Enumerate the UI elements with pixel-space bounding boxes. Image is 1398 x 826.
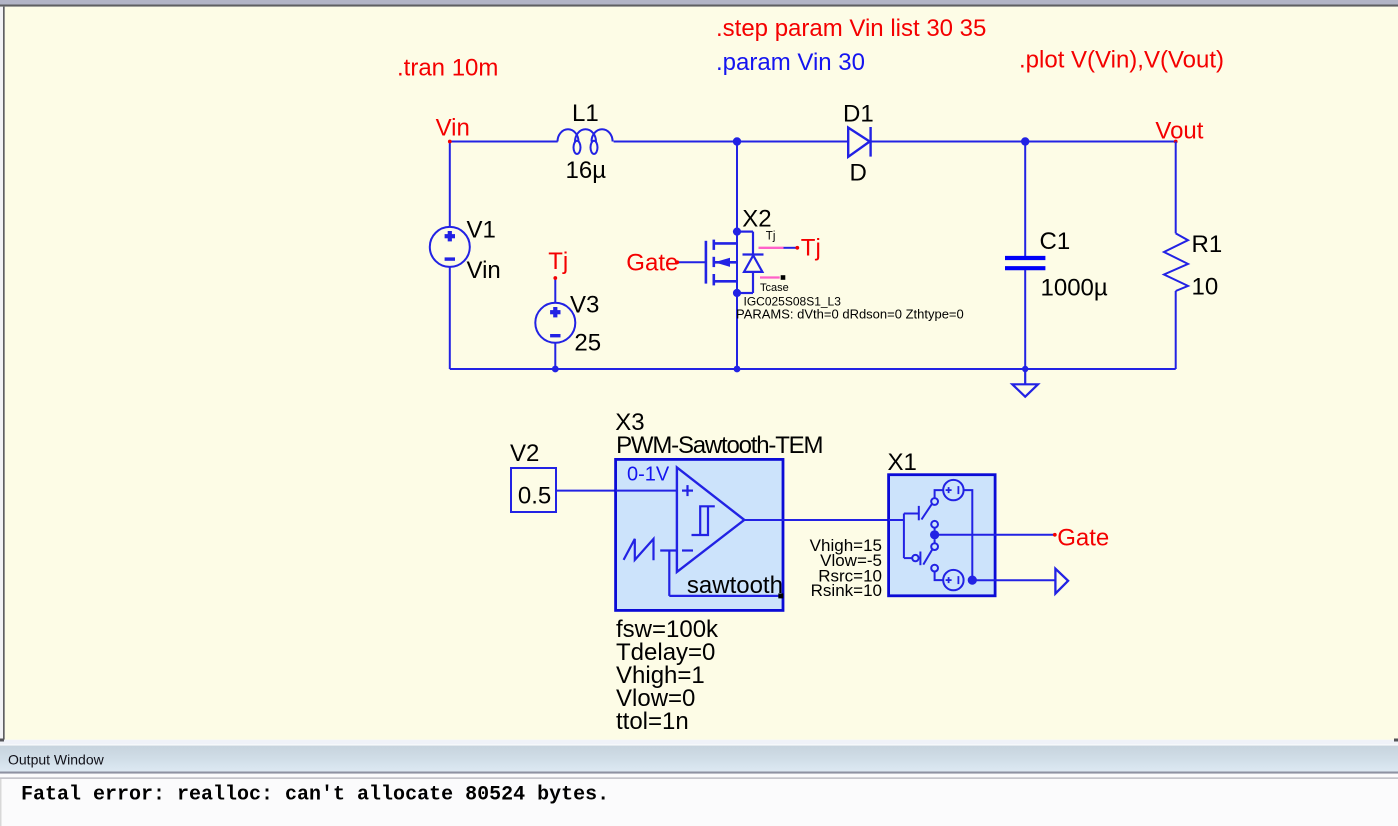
junction X1 output mid — [930, 530, 939, 539]
junction V3-bottom rail — [552, 366, 559, 373]
label sawtooth — [687, 572, 783, 599]
capacitor C1 — [1005, 142, 1045, 370]
pin dot X2 source — [733, 289, 741, 297]
svg-text:10: 10 — [1192, 273, 1219, 300]
svg-text:D1: D1 — [843, 101, 874, 128]
label D1 — [843, 101, 874, 128]
output message text — [21, 783, 609, 806]
gate driver internals X1 — [889, 480, 973, 590]
pin square sawtooth — [778, 593, 783, 598]
value Rsrc=10 — [818, 566, 882, 585]
minus input wire with tick — [660, 549, 677, 551]
label V3 — [570, 292, 599, 319]
op-amp comparator in X3 — [677, 467, 744, 572]
value IGC025S08S1_L3 — [744, 294, 842, 308]
voltage source V1 — [430, 227, 470, 267]
value ttol=1n — [616, 708, 689, 735]
svg-text:Vin: Vin — [436, 115, 470, 142]
wire X1 to Gate — [939, 534, 1055, 536]
value 25 — [574, 330, 601, 357]
value D — [850, 160, 867, 187]
svg-text:X1: X1 — [888, 449, 917, 476]
wire bottom rail — [450, 368, 1176, 370]
label 0-1V — [627, 464, 670, 486]
svg-text:sawtooth: sawtooth — [687, 572, 783, 599]
diode D1 — [848, 127, 870, 157]
junction top rail / X2 — [733, 137, 741, 145]
junction bottom rail / X2 — [734, 366, 741, 373]
svg-text:R1: R1 — [1192, 231, 1223, 258]
value Tdelay=0 — [616, 639, 715, 666]
value 0.5 — [518, 482, 551, 509]
voltage source V2 (box) — [511, 468, 556, 512]
wire X2 drain-source vertical — [736, 142, 738, 370]
wire V2 to X3 — [556, 490, 677, 492]
output arrow symbol — [1055, 569, 1068, 594]
block X1 body — [889, 475, 996, 596]
voltage source V3 — [535, 278, 575, 369]
svg-text:Gate: Gate — [1057, 525, 1109, 552]
node Gate label at X2 — [626, 249, 679, 276]
wire V2 input inside X3 — [616, 490, 677, 492]
directive .step — [716, 15, 986, 42]
wire X1 bottom output — [976, 579, 1055, 581]
svg-text:.plot V(Vin),V(Vout): .plot V(Vin),V(Vout) — [1019, 47, 1224, 74]
junction top rail / C1 — [1021, 137, 1029, 145]
window chrome top strip — [0, 0, 1398, 7]
pin Tj line (thermal) — [759, 247, 798, 249]
svg-text:0-1V: 0-1V — [627, 464, 670, 486]
value Vlow=-5 — [820, 551, 882, 570]
node Tj label at X2 — [795, 234, 820, 261]
value Vin — [467, 257, 501, 284]
svg-text:.tran 10m: .tran 10m — [397, 54, 498, 81]
label X1 — [888, 449, 917, 476]
svg-text:Tcase: Tcase — [760, 282, 789, 294]
label V2 — [510, 440, 539, 467]
label X3 — [615, 409, 644, 436]
label L1 — [572, 100, 599, 127]
svg-text:V2: V2 — [510, 440, 539, 467]
transistor X2 (IGBT symbol) — [706, 232, 764, 293]
wire X3 output to X1 — [744, 519, 888, 521]
value PARAMS line — [736, 307, 964, 322]
directive .plot — [1019, 47, 1224, 74]
output window title — [8, 752, 105, 768]
wire gate stub — [677, 261, 706, 263]
output window separator gap — [0, 739, 1398, 746]
svg-text:Output Window: Output Window — [8, 752, 105, 768]
output message area — [0, 774, 1398, 826]
value PWM-Sawtooth-TEM — [616, 432, 822, 459]
svg-text:16µ: 16µ — [566, 157, 607, 184]
junction bottom rail / ground — [1022, 366, 1028, 372]
svg-text:D: D — [850, 160, 867, 187]
pin label Tcase — [760, 282, 789, 294]
svg-text:Fatal error: realloc: can't al: Fatal error: realloc: can't allocate 805… — [21, 783, 609, 806]
label X2 — [742, 206, 771, 233]
node Tj label at V3 — [548, 248, 568, 280]
svg-text:Vout: Vout — [1155, 118, 1203, 145]
svg-text:C1: C1 — [1040, 228, 1071, 255]
block X3 body — [616, 459, 783, 610]
svg-text:Rsink=10: Rsink=10 — [811, 581, 882, 600]
label V1 — [467, 216, 496, 243]
value 10 — [1192, 273, 1219, 300]
directive .param — [716, 49, 865, 76]
junction X1 output bottom — [968, 576, 977, 585]
sawtooth icon in X3 — [624, 539, 654, 560]
svg-text:L1: L1 — [572, 100, 599, 127]
label R1 — [1192, 231, 1223, 258]
pin Tcase line (thermal) — [760, 275, 785, 280]
svg-text:0.5: 0.5 — [518, 482, 551, 509]
pin dot X2 drain — [733, 228, 741, 236]
svg-text:Vin: Vin — [467, 257, 501, 284]
svg-text:PWM-Sawtooth-TEM: PWM-Sawtooth-TEM — [616, 432, 822, 459]
window chrome left strip — [0, 7, 5, 740]
svg-text:Tj: Tj — [766, 231, 776, 243]
svg-text:1000µ: 1000µ — [1041, 275, 1108, 302]
svg-text:X2: X2 — [742, 206, 771, 233]
resistor R1 — [1164, 142, 1188, 370]
feedback sawtooth wire — [669, 551, 781, 596]
value Vhigh=15 — [810, 536, 882, 555]
value 1000u — [1041, 275, 1108, 302]
svg-text:Tj: Tj — [548, 248, 568, 275]
svg-text:ttol=1n: ttol=1n — [616, 708, 689, 735]
directive .tran — [397, 54, 498, 81]
value fsw=100k — [616, 616, 719, 643]
svg-text:Gate: Gate — [626, 249, 678, 276]
label C1 — [1040, 228, 1071, 255]
svg-text:V3: V3 — [570, 292, 599, 319]
inductor L1 — [558, 129, 613, 154]
ground — [1012, 369, 1038, 397]
svg-text:Tj: Tj — [801, 234, 821, 261]
node Gate label right — [1053, 525, 1109, 552]
svg-text:V1: V1 — [467, 216, 496, 243]
svg-text:.step param Vin list 30 35: .step param Vin list 30 35 — [716, 15, 986, 42]
value Vhigh=1 — [616, 662, 705, 689]
wire left branch V1 — [449, 142, 451, 370]
svg-text:25: 25 — [574, 330, 601, 357]
svg-text:.param Vin 30: .param Vin 30 — [716, 49, 865, 76]
output window title bar — [0, 745, 1398, 774]
svg-text:PARAMS: dVth=0 dRdson=0 Zthtyp: PARAMS: dVth=0 dRdson=0 Zthtype=0 — [736, 307, 964, 322]
node Vout label — [1155, 118, 1203, 145]
node Vin label — [436, 115, 470, 144]
value Rsink=10 — [811, 581, 882, 600]
value 16u — [566, 157, 607, 184]
value Vlow=0 — [616, 685, 695, 712]
pin label Tj small — [766, 231, 776, 243]
wire top rail — [450, 141, 1176, 143]
